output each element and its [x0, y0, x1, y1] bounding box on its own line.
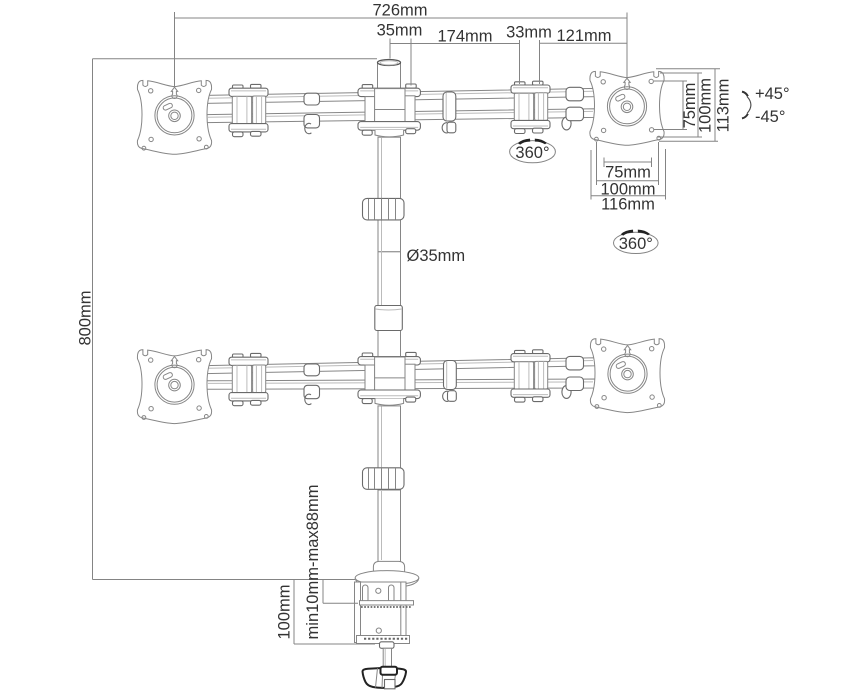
- dimension 116mm bottom right plate: [591, 149, 666, 214]
- svg-text:726mm: 726mm: [372, 2, 427, 20]
- end sleeve top arm lower: [562, 107, 584, 130]
- pole segment 4: [378, 406, 401, 469]
- svg-text:-45°: -45°: [755, 108, 785, 126]
- pole segment 2: [378, 220, 401, 306]
- svg-text:75mm: 75mm: [605, 164, 651, 182]
- arm clamp top-left: [229, 84, 268, 136]
- svg-text:33mm: 33mm: [506, 24, 552, 42]
- dimension 174mm: [390, 28, 520, 46]
- pole cap: [378, 60, 401, 89]
- dimension 33mm: [506, 24, 552, 85]
- pole ribbed collar upper: [363, 198, 405, 220]
- VESA plate bottom-right: [590, 339, 664, 413]
- dimension 100mm vertical right plate: [657, 73, 715, 137]
- rotation oval 360 top arm: [510, 139, 556, 163]
- svg-text:Ø35mm: Ø35mm: [407, 247, 466, 265]
- svg-text:+45°: +45°: [755, 85, 790, 103]
- dimension 121mm: [540, 27, 628, 45]
- cable clip top-right arm: [442, 92, 456, 133]
- arm clamp bottom-left: [229, 353, 268, 405]
- dimension 75mm bottom right plate: [604, 158, 652, 182]
- dimension min10mm-max88mm: [304, 485, 358, 640]
- VESA plate top-right: [590, 71, 664, 145]
- dimension 113mm vertical right plate: [656, 69, 733, 142]
- rotation oval 360 right plate: [614, 230, 659, 254]
- clamp bottom bar: [357, 636, 410, 644]
- desk disc: [355, 571, 419, 588]
- clamp wing knob: [363, 667, 407, 689]
- pole segment 3: [378, 331, 401, 358]
- end sleeve bottom arm upper: [566, 356, 584, 370]
- svg-text:174mm: 174mm: [437, 28, 492, 46]
- pole sleeve joint: [375, 306, 403, 331]
- rotation arc +45/-45: [742, 85, 790, 126]
- svg-text:35mm: 35mm: [377, 22, 423, 40]
- svg-text:100mm: 100mm: [697, 78, 715, 133]
- clamp screw rod: [383, 648, 391, 670]
- pole base boss: [373, 561, 404, 577]
- arm clamp top-right 33mm: [511, 81, 550, 133]
- dimension 726mm: [175, 2, 628, 89]
- pole segment 5: [378, 490, 401, 562]
- clamp screw nut: [380, 642, 395, 649]
- pole segment 1: [378, 137, 401, 198]
- svg-text:min10mm-max88mm: min10mm-max88mm: [304, 485, 322, 640]
- top arm lower tube: [206, 109, 595, 123]
- VESA plate top-left: [137, 80, 211, 154]
- arm clamp bottom-right: [511, 350, 550, 402]
- svg-text:360°: 360°: [619, 235, 653, 253]
- svg-text:121mm: 121mm: [556, 27, 611, 45]
- bottom arm upper tube: [206, 358, 595, 374]
- dimension 35mm: [377, 22, 423, 86]
- dimension 100mm bottom right plate: [597, 142, 659, 199]
- dimension 100mm base: [276, 580, 376, 645]
- clamp sliding jaw: [360, 601, 414, 607]
- svg-text:100mm: 100mm: [276, 584, 294, 639]
- pole ribbed collar lower: [363, 468, 405, 490]
- bottom arm lower tube: [206, 379, 595, 389]
- cable clip top-left arm: [304, 93, 320, 134]
- end sleeve bottom arm lower: [562, 377, 584, 398]
- svg-text:116mm: 116mm: [601, 196, 655, 214]
- VESA plate bottom-left: [137, 350, 211, 424]
- clamp bracket: [355, 582, 407, 643]
- end sleeve top arm upper: [566, 87, 584, 101]
- cable clip bottom-left arm: [304, 364, 320, 405]
- top arm upper tube: [206, 88, 595, 103]
- pole cross junction lower: [358, 352, 420, 405]
- cable clip bottom-right arm: [443, 361, 457, 402]
- svg-text:800mm: 800mm: [77, 290, 95, 345]
- dimension 800mm: [77, 59, 378, 580]
- pole cross junction upper: [358, 84, 420, 137]
- dimension 75mm vertical right plate: [654, 81, 699, 130]
- svg-text:113mm: 113mm: [715, 79, 733, 133]
- svg-text:360°: 360°: [515, 144, 549, 162]
